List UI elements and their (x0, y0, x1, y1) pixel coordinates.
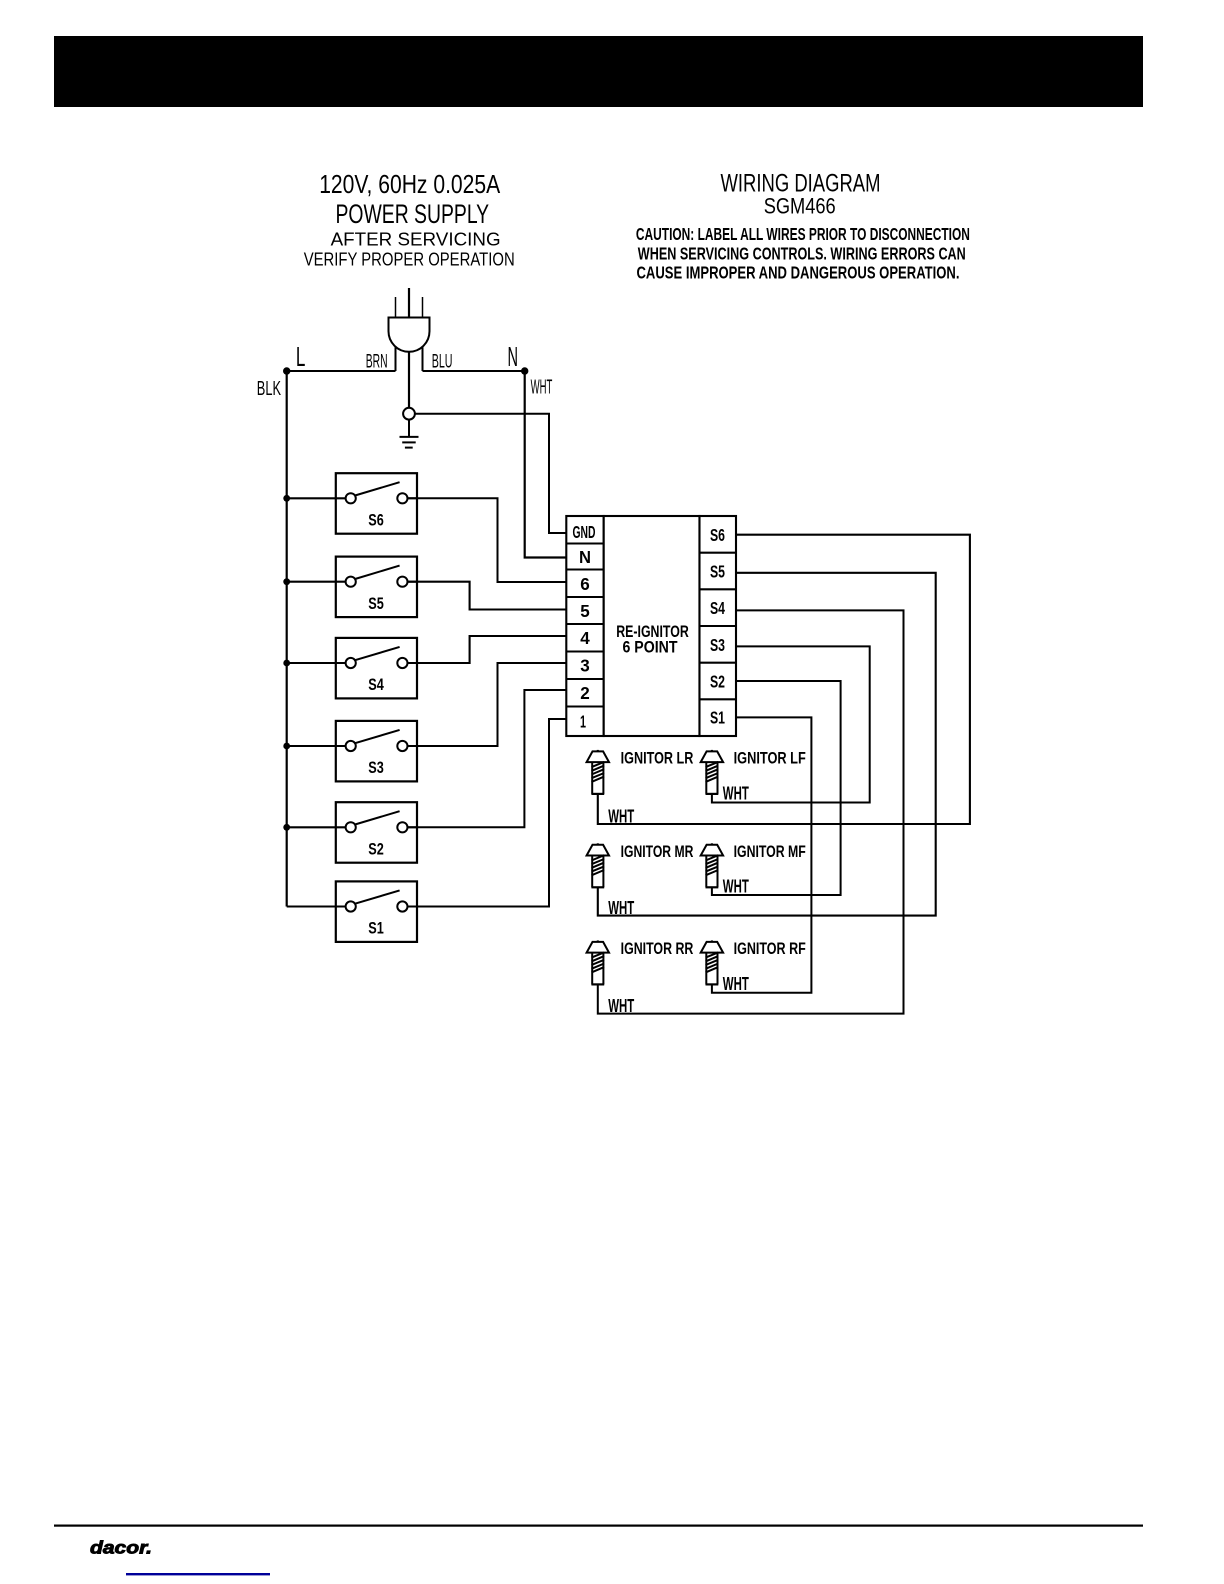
svg-text:AFTER SERVICING: AFTER SERVICING (331, 230, 501, 250)
svg-text:WHT: WHT (608, 806, 634, 826)
header bar (54, 36, 1143, 107)
power plug P1 (389, 288, 430, 352)
svg-text:GND: GND (573, 522, 596, 542)
svg-text:BRN: BRN (366, 352, 388, 373)
wire BLK bus (286, 371, 288, 907)
svg-text:4: 4 (580, 628, 590, 648)
svg-text:L: L (296, 341, 306, 372)
wire earth to GND terminal (415, 414, 566, 533)
switch S2 (283, 802, 417, 863)
ignitor MF (701, 843, 723, 887)
svg-text:BLK: BLK (257, 378, 282, 400)
footer rule (54, 1525, 1143, 1527)
re-ignitor U1 left terminal strip (566, 516, 603, 736)
svg-text:N: N (579, 547, 591, 567)
wire S4 to ignitor RR (598, 610, 904, 1013)
wire BRN drop (395, 347, 397, 371)
svg-text:S4: S4 (710, 598, 725, 618)
wire S2 to ignitor MF (712, 681, 841, 895)
svg-text:S6: S6 (368, 511, 384, 530)
wire N to terminal N (WHT) (525, 371, 567, 558)
ignitor MR (587, 843, 609, 887)
ignitor LF (701, 750, 723, 794)
svg-text:WHT: WHT (531, 376, 553, 398)
wire S5 to terminal 5 (408, 582, 567, 610)
svg-text:WHT: WHT (723, 876, 749, 896)
wire S4 to terminal 4 (408, 636, 567, 663)
svg-text:S2: S2 (710, 672, 725, 692)
wire plug stem to ground (408, 352, 410, 408)
wire S3 to ignitor LF (712, 646, 870, 802)
svg-text:dacor.: dacor. (90, 1538, 152, 1558)
wire S6 to ignitor LR (598, 535, 970, 824)
svg-text:S4: S4 (368, 675, 384, 694)
wire S3 to terminal 3 (408, 663, 567, 746)
svg-text:120V, 60Hz 0.025A: 120V, 60Hz 0.025A (319, 169, 501, 199)
wire S6 to terminal 6 (408, 498, 567, 582)
svg-text:3: 3 (580, 656, 590, 676)
svg-text:S5: S5 (368, 594, 384, 613)
ignitor RR (587, 940, 609, 984)
ground (400, 420, 419, 448)
switch S1 (287, 881, 417, 942)
svg-text:5: 5 (580, 601, 590, 621)
svg-text:S5: S5 (710, 562, 725, 582)
switch S3 (283, 721, 417, 782)
wire S1 to ignitor RF (712, 717, 812, 992)
svg-text:S6: S6 (710, 525, 725, 545)
wire S1 to terminal 1 (408, 719, 567, 907)
wire S2 to terminal 2 (408, 690, 567, 827)
svg-text:N: N (508, 341, 519, 372)
wire plug to N (423, 370, 525, 372)
switch S5 (283, 557, 417, 618)
wire S5 to ignitor MR (598, 573, 936, 916)
svg-text:IGNITOR LR: IGNITOR LR (621, 749, 694, 768)
svg-text:S2: S2 (368, 840, 384, 859)
svg-text:WHEN SERVICING CONTROLS. WIRIN: WHEN SERVICING CONTROLS. WIRING ERRORS C… (638, 243, 966, 263)
svg-text:S3: S3 (368, 758, 384, 777)
svg-text:IGNITOR RR: IGNITOR RR (621, 939, 694, 958)
svg-text:S3: S3 (710, 635, 725, 655)
switch S4 (283, 638, 417, 699)
svg-text:IGNITOR RF: IGNITOR RF (734, 939, 806, 958)
svg-text:WHT: WHT (723, 974, 749, 994)
svg-text:SGM466: SGM466 (764, 194, 836, 219)
footer blue line (126, 1573, 270, 1575)
switch S6 (283, 473, 417, 534)
svg-text:VERIFY PROPER OPERATION: VERIFY PROPER OPERATION (304, 249, 515, 269)
svg-text:WHT: WHT (608, 996, 634, 1016)
node L junction (283, 367, 290, 374)
earth terminal circle (403, 408, 415, 420)
svg-text:WHT: WHT (608, 898, 634, 918)
wire L to plug (287, 370, 396, 372)
svg-text:CAUSE IMPROPER AND DANGEROUS O: CAUSE IMPROPER AND DANGEROUS OPERATION. (637, 263, 960, 283)
ignitor LR (587, 750, 609, 794)
svg-text:IGNITOR LF: IGNITOR LF (734, 749, 806, 768)
ignitor RF (701, 940, 723, 984)
svg-text:6: 6 (580, 574, 590, 594)
node N junction (521, 367, 528, 374)
svg-text:S1: S1 (710, 707, 725, 727)
svg-text:1: 1 (580, 712, 586, 732)
svg-text:IGNITOR MF: IGNITOR MF (734, 842, 806, 861)
wire BLU drop (422, 347, 424, 371)
svg-text:6 POINT: 6 POINT (623, 638, 679, 657)
svg-text:POWER SUPPLY: POWER SUPPLY (335, 199, 489, 229)
svg-text:2: 2 (580, 683, 590, 703)
svg-text:S1: S1 (368, 919, 384, 938)
svg-text:CAUTION: LABEL ALL WIRES PRIOR: CAUTION: LABEL ALL WIRES PRIOR TO DISCON… (636, 224, 970, 244)
re-ignitor U1 body (604, 516, 700, 736)
svg-text:WHT: WHT (723, 783, 749, 803)
re-ignitor U1 right terminal strip (700, 516, 737, 736)
svg-text:IGNITOR MR: IGNITOR MR (621, 842, 694, 861)
svg-text:BLU: BLU (432, 352, 453, 373)
